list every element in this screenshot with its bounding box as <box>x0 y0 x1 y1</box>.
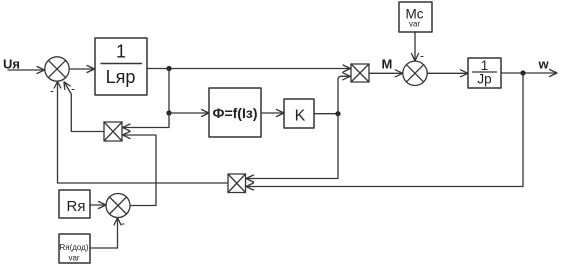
summing junction S3 (resistance sum) <box>106 194 130 218</box>
block Rя <box>59 190 90 218</box>
value label Rя(дод) var <box>59 243 88 263</box>
svg-text:var: var <box>68 254 79 263</box>
svg-text:w: w <box>538 57 550 72</box>
wire: junction A down to junction B <box>168 69 170 114</box>
wire: speed node D down and left to multiplier X3 lower input <box>246 73 523 190</box>
node junction dot D (speed node) <box>520 70 525 75</box>
multiplier X2 (IR drop product) <box>104 122 122 141</box>
block Rя(дод) var <box>59 234 90 263</box>
svg-text:Jp: Jp <box>477 72 491 87</box>
wire: flux node C up to multiplier X1 lower input <box>338 73 350 114</box>
wire: block K output to flux node C <box>314 113 338 115</box>
svg-text:-: - <box>50 84 54 98</box>
minus sign at S3 bottom input <box>121 216 125 230</box>
summing junction S2 <box>403 61 427 85</box>
block Ф=f(Iз) <box>209 88 261 137</box>
block Mc var <box>399 2 432 32</box>
svg-text:Lяр: Lяр <box>106 67 136 87</box>
wire: multiplier X3 output left and up to summer S1 lower input <box>54 82 228 184</box>
wire: block 1/Lяр output main current line to multiplier X1 <box>147 65 351 72</box>
svg-text:Rя(дод): Rя(дод) <box>59 243 88 252</box>
node M label <box>382 57 393 72</box>
value label Ф=f(Iз) <box>213 105 258 121</box>
svg-text:Rя: Rя <box>67 198 86 215</box>
summing junction S1 <box>45 57 69 81</box>
minus sign at S2 top input <box>420 49 424 63</box>
wire: block Ф=f(Iз) to block K <box>261 110 284 117</box>
minus sign at S1 back-EMF input <box>50 84 54 98</box>
value label 1/Lяр <box>106 42 136 88</box>
svg-text:K: K <box>295 108 306 125</box>
svg-text:var: var <box>409 20 420 29</box>
wire: flux node C down and left to multiplier X3 upper input <box>246 114 338 182</box>
wire: multiplier X2 output left and up to summer S1 second minus input <box>64 82 104 132</box>
block 1/Lяр <box>95 38 147 95</box>
svg-text:-: - <box>420 49 424 63</box>
wire: Uя input to summer S1 <box>8 67 45 74</box>
value label Mc var <box>406 7 424 29</box>
value label Rя <box>67 198 86 215</box>
svg-text:-: - <box>71 81 75 95</box>
wire: block 1/Jp to output w <box>501 70 557 77</box>
wire: Mc block down to summer S2 <box>412 32 419 61</box>
wire: junction B down and left to multiplier X2 upper input <box>123 113 170 131</box>
svg-text:-: - <box>121 216 125 230</box>
wire: block Rя to summer S3 <box>90 202 106 209</box>
svg-text:1: 1 <box>116 42 126 62</box>
fraction bar of 1/Jp <box>473 71 497 73</box>
block K <box>284 99 314 128</box>
multiplier X1 (torque product) <box>351 64 369 82</box>
multiplier X3 (back-EMF product) <box>228 174 246 193</box>
minus sign at S1 IR input <box>71 81 75 95</box>
wire: junction B to block Ф=f(Iз) <box>169 110 209 117</box>
node junction dot B <box>166 110 171 115</box>
node Uя input label <box>3 57 20 72</box>
svg-text:Uя: Uя <box>3 57 20 72</box>
wire: summer S1 to block 1/Lяр <box>69 66 94 73</box>
block 1/Jp <box>468 58 501 88</box>
svg-text:M: M <box>382 57 393 72</box>
value label 1/Jp <box>477 58 491 87</box>
svg-text:Ф=f(Iз): Ф=f(Iз) <box>213 105 258 121</box>
wire: block Rя(дод) right and up to summer S3 bottom <box>90 218 121 249</box>
value label K <box>295 108 306 125</box>
wire: summer S3 output right and up to multiplier X2 lower input <box>123 132 157 206</box>
wire: summer S2 to block 1/Jp <box>427 70 468 77</box>
node junction dot A on current line <box>166 66 171 71</box>
node w output label <box>538 57 550 72</box>
fraction bar of 1/Lяр <box>101 63 142 65</box>
wire: multiplier X1 to summer S2 with M label <box>369 70 403 77</box>
node junction dot C (flux node) <box>335 111 340 116</box>
